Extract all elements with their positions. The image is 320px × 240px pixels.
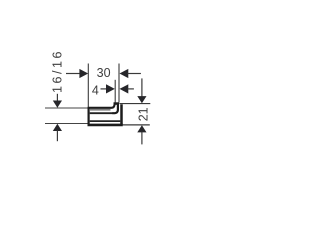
- dim line 16/16 lower segment: [56, 130, 58, 141]
- svg-text:21: 21: [136, 107, 150, 121]
- wall line upper left: [45, 107, 89, 109]
- arrow down (21): [137, 96, 146, 103]
- profile lip cap: [114, 102, 120, 105]
- extension line 30 left: [87, 64, 89, 108]
- dim line 16/16 upper segment: [56, 94, 58, 102]
- extension line 4 left: [114, 80, 116, 103]
- arrow left (4 right): [120, 84, 129, 93]
- dim line 21 lower segment: [141, 132, 143, 145]
- dim line 21 upper segment: [141, 78, 143, 96]
- arrow left (30 right): [120, 69, 129, 78]
- arrow right (4 left): [106, 84, 115, 93]
- extension tick upper right: [119, 103, 150, 105]
- dim 4 left tail: [101, 88, 108, 90]
- arrow right (30 left): [79, 69, 88, 78]
- profile inner arm line: [90, 112, 113, 114]
- profile left wall: [87, 107, 89, 125]
- wall line lower left: [45, 123, 90, 125]
- profile bottom edge: [88, 124, 123, 127]
- svg-text:30: 30: [97, 66, 111, 80]
- svg-text:16/16: 16/16: [51, 49, 65, 93]
- arrow up (16/16): [53, 124, 62, 131]
- profile top inner line: [90, 109, 111, 111]
- dim 30 right tail: [128, 73, 141, 75]
- arrow down (16/16): [53, 101, 62, 108]
- arrow up (21): [137, 125, 146, 132]
- profile inner lower line: [90, 120, 121, 122]
- profile right wall: [120, 104, 123, 125]
- profile lip right wall and hook foot: [112, 104, 118, 113]
- extension tick lower right: [123, 124, 150, 126]
- extension line 30/4 right: [118, 64, 120, 103]
- dim 4 right tail: [128, 88, 134, 90]
- dim 30 left tail: [66, 73, 80, 75]
- svg-text:4: 4: [92, 84, 99, 98]
- profile top outer edge and curve into lip: [88, 103, 115, 108]
